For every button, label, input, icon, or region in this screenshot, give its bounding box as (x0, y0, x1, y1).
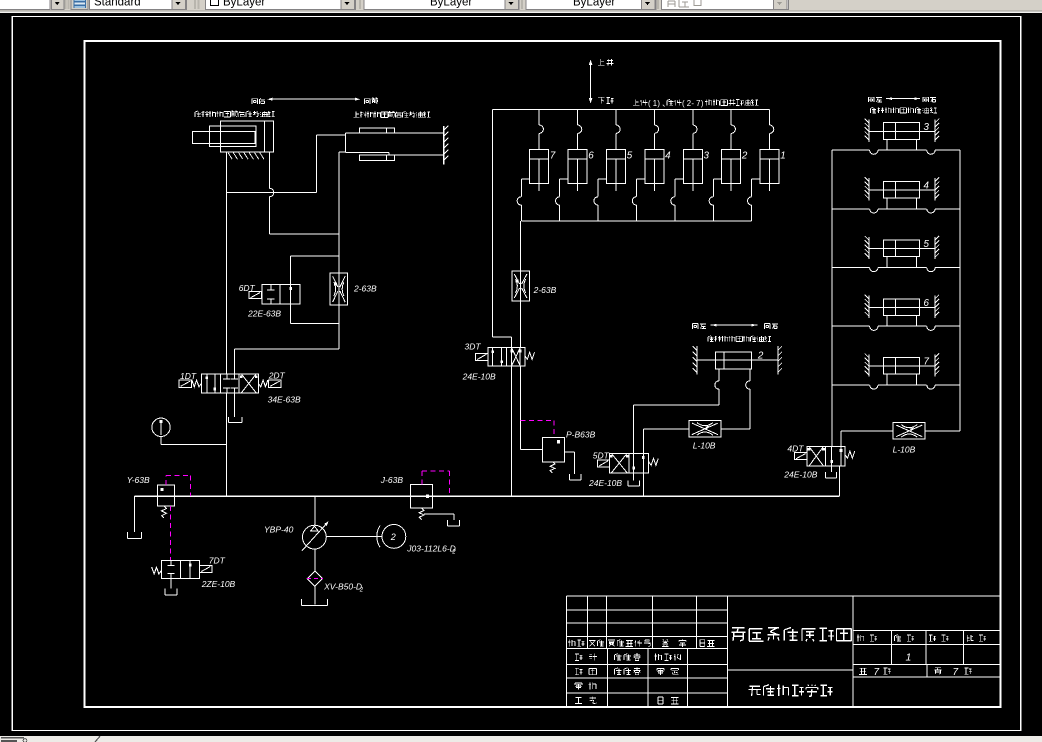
svg-text:ByLayer: ByLayer (573, 0, 615, 9)
svg-text:): ) (657, 99, 660, 108)
svg-text:YBP-40: YBP-40 (264, 525, 294, 535)
svg-text:3DT: 3DT (465, 342, 482, 352)
svg-text:2: 2 (687, 99, 691, 108)
svg-text:2: 2 (757, 351, 764, 362)
svg-text:Y-63B: Y-63B (127, 475, 150, 485)
svg-text:3: 3 (924, 122, 930, 133)
svg-text:1DT: 1DT (180, 371, 197, 381)
svg-text:24E-10B: 24E-10B (783, 470, 817, 480)
svg-text:-: - (691, 99, 694, 108)
svg-text:7: 7 (953, 667, 959, 678)
svg-text:2-63B: 2-63B (533, 285, 557, 295)
svg-text:1: 1 (906, 652, 912, 664)
svg-text:2: 2 (451, 550, 456, 556)
svg-text:2DT: 2DT (268, 371, 286, 381)
svg-text:24E-10B: 24E-10B (588, 478, 622, 488)
svg-text:5DT: 5DT (593, 451, 610, 461)
svg-text:J-63B: J-63B (380, 475, 404, 485)
svg-text:2: 2 (390, 532, 396, 542)
svg-text:2: 2 (741, 151, 748, 162)
svg-text:Standard: Standard (94, 0, 141, 9)
svg-text:6: 6 (588, 151, 594, 162)
svg-text:2ZE-10B: 2ZE-10B (201, 579, 236, 589)
svg-text:1: 1 (653, 99, 657, 108)
svg-text:7: 7 (550, 151, 556, 162)
svg-text:2: 2 (359, 588, 364, 594)
svg-text:L-10B: L-10B (693, 441, 716, 451)
svg-text:L-10B: L-10B (893, 445, 916, 455)
svg-text:6DT: 6DT (239, 283, 256, 293)
svg-text:3: 3 (704, 151, 710, 162)
svg-text:24E-10B: 24E-10B (462, 372, 496, 382)
svg-text:5: 5 (924, 239, 930, 250)
svg-text:、: 、 (662, 99, 670, 108)
svg-text:2-63B: 2-63B (353, 284, 377, 294)
svg-text:(: ( (648, 99, 651, 108)
svg-text:): ) (701, 99, 704, 108)
svg-text:P-B63B: P-B63B (566, 430, 596, 440)
svg-text:4: 4 (924, 181, 930, 192)
svg-text:5: 5 (627, 151, 633, 162)
svg-text:ByLayer: ByLayer (430, 0, 472, 9)
svg-text:22E-63B: 22E-63B (247, 309, 281, 319)
svg-text:34E-63B: 34E-63B (268, 395, 301, 405)
svg-text:(: ( (682, 99, 685, 108)
svg-text:1: 1 (780, 151, 785, 162)
svg-text:7: 7 (874, 667, 880, 678)
svg-text:6: 6 (924, 298, 930, 309)
svg-text:4DT: 4DT (787, 444, 804, 454)
svg-text:ByLayer: ByLayer (223, 0, 265, 9)
svg-text:XV-B50-D: XV-B50-D (323, 582, 362, 592)
svg-text:7: 7 (924, 357, 930, 368)
svg-text:7DT: 7DT (209, 556, 226, 566)
svg-text:7: 7 (696, 99, 700, 108)
svg-text:J03-112L6-D: J03-112L6-D (406, 544, 456, 554)
svg-text:4: 4 (665, 151, 671, 162)
